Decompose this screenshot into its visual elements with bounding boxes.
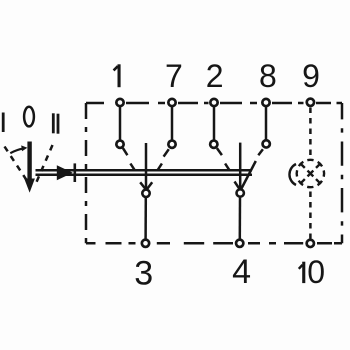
contact 7 blade stub <box>164 149 169 156</box>
pole 3 whisker left above bar <box>130 164 134 170</box>
pole 4 moving contact circle <box>237 189 244 196</box>
coupling triangle arrow <box>57 165 73 180</box>
wire: pole 4 to terminal 4 <box>239 198 242 239</box>
actuator bar lower line <box>36 174 253 177</box>
actuator bar upper line <box>36 169 253 172</box>
label terminal 10 <box>299 262 306 283</box>
lamp dashed circle <box>294 157 327 190</box>
pole 4 blade closed toward contact 8 <box>241 161 256 189</box>
svg-text:4: 4 <box>232 253 251 291</box>
lamp cross diagonal NE-SW dashed <box>301 164 320 183</box>
switch enclosure dash-dot frame: bottom border <box>86 242 332 245</box>
svg-text:0: 0 <box>307 254 325 290</box>
pole 4 vertical conductor <box>239 143 242 189</box>
wire: lamp to terminal 10 dashed stem <box>309 192 312 239</box>
switch enclosure dash-dot frame: top border <box>86 102 342 105</box>
wire: terminal 1 stem <box>119 107 122 140</box>
contact 7 pivot circle <box>168 141 175 148</box>
wire: terminal 2 stem <box>213 107 216 140</box>
contact 1 pivot circle <box>116 141 123 148</box>
wire: terminal 9 dashed stem to lamp <box>309 108 312 160</box>
terminal 4 pin circle <box>236 240 243 247</box>
label I <box>2 113 5 133</box>
lamp left parenthesis arc <box>289 164 296 185</box>
svg-text:8: 8 <box>259 58 277 94</box>
svg-text:9: 9 <box>302 58 320 94</box>
terminal 7 pin circle <box>168 99 175 106</box>
coupling cathode tick <box>74 163 77 182</box>
switch enclosure dash-dot frame: right border <box>334 103 342 243</box>
terminal 8 pin circle <box>262 99 269 106</box>
pole 3 arrowhead right stroke <box>147 182 152 189</box>
label 0 <box>24 107 34 127</box>
wire: terminal 7 stem <box>171 107 174 140</box>
wire: pole 3 to terminal 3 <box>144 198 147 239</box>
label II <box>52 113 55 133</box>
contact 1 blade stub <box>123 148 128 155</box>
pole 3 moving contact circle <box>142 190 149 197</box>
lever position II dashed stroke <box>37 145 53 182</box>
lamp cross diagonal NW-SE dashed <box>301 164 320 183</box>
terminal 9 pin circle <box>307 99 314 106</box>
terminal 10 pin circle <box>307 240 314 247</box>
label terminal 1 <box>114 64 121 87</box>
terminal 3 pin circle <box>142 240 149 247</box>
contact 2 blade stub <box>217 148 222 155</box>
switch enclosure dash-dot frame: left border <box>85 103 88 243</box>
terminal 1 pin circle <box>116 99 123 106</box>
momentary return arrow <box>10 145 27 153</box>
svg-text:3: 3 <box>134 255 153 293</box>
pole 3 whisker right above bar <box>158 164 162 170</box>
wire: terminal 8 stem <box>265 107 268 140</box>
svg-text:7: 7 <box>165 58 183 94</box>
contact 8 pivot circle <box>263 140 270 147</box>
contact 8 blade stub <box>258 149 263 155</box>
pole 4 whisker left above bar <box>225 164 229 170</box>
lever (position 0) <box>24 142 35 193</box>
lever position I dashed stroke <box>5 147 29 183</box>
contact 2 pivot circle <box>210 141 217 148</box>
pole 3 vertical conductor <box>145 143 148 189</box>
svg-text:2: 2 <box>206 58 224 94</box>
pole 4 arrowhead left stroke <box>235 182 240 190</box>
terminal 2 pin circle <box>210 99 217 106</box>
pole 3 arrowhead left stroke <box>140 182 146 189</box>
